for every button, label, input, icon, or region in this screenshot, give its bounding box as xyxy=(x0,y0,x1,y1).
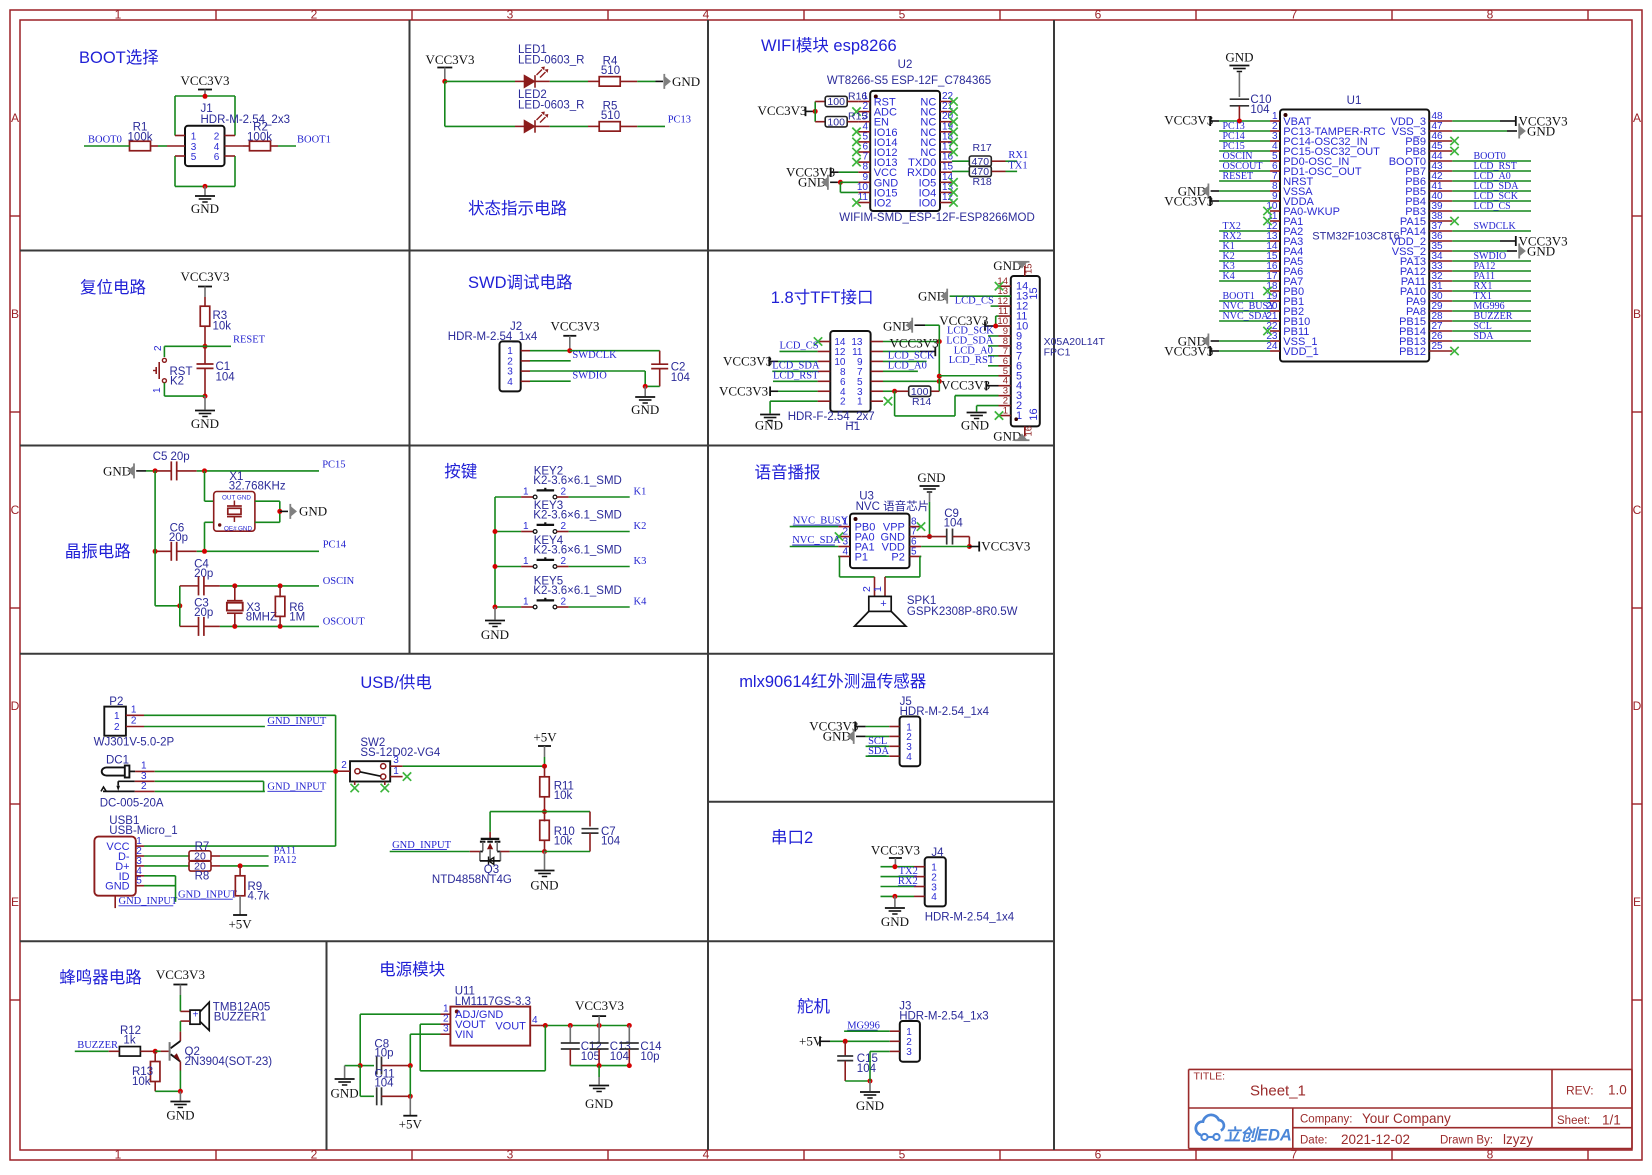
wire VCC3V3 down to LED2 row xyxy=(444,81,446,126)
junction dot PC14/X1 xyxy=(202,549,207,554)
resistor R15 100 xyxy=(825,117,847,127)
no-connect X U2 pin19 xyxy=(949,128,957,136)
svg-text:LCD_RST: LCD_RST xyxy=(949,355,995,366)
wire X1 OUT to PC15 net xyxy=(204,471,206,501)
svg-text:GND: GND xyxy=(481,627,509,642)
svg-text:4: 4 xyxy=(507,377,513,388)
pin 14 U2 IO5 xyxy=(940,181,952,183)
svg-text:VCC3V3: VCC3V3 xyxy=(180,73,229,88)
pin 28 U1 PB15 xyxy=(1429,320,1452,322)
no-connect X U2 pin6 xyxy=(852,148,860,156)
no-connect X U2 pin17 xyxy=(949,148,957,156)
svg-text:P2: P2 xyxy=(891,551,904,563)
svg-text:2021-12-02: 2021-12-02 xyxy=(1341,1132,1410,1147)
pin 29 U1 PA8 xyxy=(1429,310,1452,312)
wire U11 ADJ to gnd rail xyxy=(360,1013,440,1015)
no-connect X FPC pin1 xyxy=(995,411,1003,419)
wire FPC pin5 to gnd net xyxy=(939,375,998,377)
no-connect X SW2 unused contacts xyxy=(354,782,356,786)
svg-text:GSPK2308P-8R0.5W: GSPK2308P-8R0.5W xyxy=(907,606,1018,618)
svg-text:2: 2 xyxy=(141,781,147,792)
svg-text:HDR-F-2.54_2x7: HDR-F-2.54_2x7 xyxy=(788,411,875,423)
svg-text:R14: R14 xyxy=(912,396,931,408)
junction dot R8/R9 xyxy=(238,863,243,868)
svg-text:10k: 10k xyxy=(554,790,573,802)
power +5V (R9) xyxy=(233,914,247,916)
junction dot R12/R13/base xyxy=(153,1049,158,1054)
ground GND (H1 pin2) xyxy=(769,413,771,414)
ground flag GND (LED1) xyxy=(663,74,665,89)
wire U1 pin33 PA12 xyxy=(1452,270,1531,272)
junction dot R6 top xyxy=(278,583,283,588)
pin 30 U1 PA9 xyxy=(1429,300,1452,302)
wire U1 pin34 SWDIO xyxy=(1452,260,1531,262)
wire J4.3 RX2 xyxy=(881,886,915,888)
svg-text:GND: GND xyxy=(961,418,989,433)
svg-text:3: 3 xyxy=(906,1047,912,1058)
svg-text:GND: GND xyxy=(993,429,1021,444)
svg-text:104: 104 xyxy=(216,372,236,384)
title block xyxy=(1189,1068,1632,1070)
pin 38 U1 PA15 xyxy=(1429,220,1452,222)
svg-text:VCC3V3: VCC3V3 xyxy=(1164,113,1213,128)
svg-text:104: 104 xyxy=(857,1063,877,1075)
junction dot C13 bottom xyxy=(597,1063,602,1068)
wire LED2 to R5 xyxy=(550,125,588,127)
shield pin USB1 xyxy=(114,896,116,908)
svg-text:BUZZER1: BUZZER1 xyxy=(214,1012,266,1024)
capacitor C15 104 xyxy=(844,1041,846,1056)
wire U3 P1 to speaker pin2 xyxy=(838,555,839,557)
wire U1 pin2 PC13 xyxy=(1219,130,1270,132)
pin 2 U1 PC13-TAMPER-RTC xyxy=(1270,130,1280,132)
junction dot VCC3V3-J1 xyxy=(203,94,208,99)
wire +5V rail vertical xyxy=(409,1066,411,1097)
pushbutton K2 RST xyxy=(164,345,205,347)
ground flag GND (U1 pin47) xyxy=(1452,130,1507,132)
svg-text:VCC3V3: VCC3V3 xyxy=(156,967,205,982)
svg-text:GND: GND xyxy=(1527,123,1555,138)
svg-text:复位电路: 复位电路 xyxy=(80,278,147,297)
no-connect X U2 pin12 xyxy=(949,198,957,206)
connector FPC1 X05A20L14T xyxy=(1011,276,1040,426)
svg-text:VCC3V3: VCC3V3 xyxy=(425,52,474,67)
no-connect X U1 pin38 xyxy=(1450,217,1458,225)
svg-text:5: 5 xyxy=(911,546,917,557)
svg-text:Sheet_1: Sheet_1 xyxy=(1250,1083,1306,1100)
pin 18 U1 PB0 xyxy=(1270,290,1280,292)
wire J2 pin4 SWDIO xyxy=(530,380,571,382)
connector H1 HDR-F-2.54_2x7 xyxy=(830,331,870,412)
svg-text:D: D xyxy=(1633,699,1642,713)
wire USB D- to R7 xyxy=(144,855,190,857)
wire U1 pin5 OSCIN xyxy=(1219,160,1270,162)
svg-text:1.8寸TFT接口: 1.8寸TFT接口 xyxy=(771,288,874,307)
ground GND (J1 bottom) xyxy=(204,186,206,195)
section divider lines xyxy=(20,250,1054,252)
svg-text:GND: GND xyxy=(881,914,909,929)
no-connect X U2 pin14 xyxy=(949,178,957,186)
svg-text:3: 3 xyxy=(507,7,514,21)
pin 40 U1 PB4 xyxy=(1429,200,1452,202)
svg-text:GND: GND xyxy=(238,526,252,533)
pin 15 U1 PA5 xyxy=(1270,260,1280,262)
capacitor C13 104 xyxy=(598,1026,600,1044)
svg-text:K2: K2 xyxy=(170,376,184,388)
svg-text:1: 1 xyxy=(114,711,120,722)
svg-text:C5: C5 xyxy=(153,451,168,463)
wire OSCIN row xyxy=(220,585,319,587)
wire SW2.3 to +5V xyxy=(403,765,545,767)
ground GND (buzzer) xyxy=(179,1091,181,1100)
svg-text:5: 5 xyxy=(899,7,906,21)
svg-text:NVC_SDA: NVC_SDA xyxy=(1223,311,1270,322)
svg-text:C: C xyxy=(11,503,20,517)
svg-text:SWD调试电路: SWD调试电路 xyxy=(468,273,573,292)
svg-text:SWDCLK: SWDCLK xyxy=(572,350,617,361)
svg-text:RESET: RESET xyxy=(1223,171,1254,182)
svg-text:舵机: 舵机 xyxy=(797,997,831,1016)
junction dot C12 top xyxy=(568,1023,573,1028)
wire BOOT0 to R1 xyxy=(84,145,130,147)
svg-text:20p: 20p xyxy=(171,451,190,463)
svg-text:Your Company: Your Company xyxy=(1362,1111,1451,1126)
pin1 indicator dot FPC1 xyxy=(1014,417,1018,421)
wire LED1 to R4 xyxy=(550,80,588,82)
svg-text:2: 2 xyxy=(153,345,164,351)
junction dot J4 VCC xyxy=(892,864,897,869)
wire C6 to PC14 xyxy=(197,550,319,552)
wire pullup vertical xyxy=(814,102,816,122)
no-connect X U2 pin13 xyxy=(949,188,957,196)
svg-text:5: 5 xyxy=(136,876,142,887)
ground GND (keys) xyxy=(494,607,496,620)
no-connect X H1 pin14 xyxy=(814,337,822,345)
wire U1 pin44 BOOT0 xyxy=(1452,160,1531,162)
svg-text:E: E xyxy=(1633,895,1641,909)
junction dot DC/+5V rail xyxy=(333,769,338,774)
wire J5.4 SDA xyxy=(866,755,890,757)
svg-text:E: E xyxy=(11,895,19,909)
svg-text:6: 6 xyxy=(214,152,220,163)
wire R14 bottom loop to FPC pin3 xyxy=(894,391,896,416)
speaker SPK1 GSPK2308P-8R0.5W xyxy=(874,577,876,597)
junction dot VBAT/C10 xyxy=(1237,119,1242,124)
wire USB D+ to R8 xyxy=(144,865,190,867)
no-connect X U2 pin21 xyxy=(949,107,957,115)
wire H1 pin5 to gnd net vertical xyxy=(883,380,939,382)
junction dot LED supply xyxy=(442,79,447,84)
svg-text:GND: GND xyxy=(331,1086,359,1101)
wire J4.4 GND xyxy=(881,895,915,897)
junction dot J3 +5V/C15 xyxy=(843,1039,848,1044)
pin 15 U2 RXD0 xyxy=(940,171,952,173)
svg-text:104: 104 xyxy=(610,1051,630,1063)
wire buzzer to Q2 collector xyxy=(179,1021,181,1032)
power flag VCC3V3 (U1 pin36) xyxy=(1452,240,1500,242)
svg-text:IO2: IO2 xyxy=(874,198,892,210)
svg-text:状态指示电路: 状态指示电路 xyxy=(468,199,568,218)
wire U1 pin40 LCD_SCK xyxy=(1452,200,1531,202)
junction dot C8 left xyxy=(358,1063,363,1068)
svg-text:VCC3V3: VCC3V3 xyxy=(575,998,624,1013)
svg-text:1: 1 xyxy=(393,766,399,777)
svg-text:LED-0603_R: LED-0603_R xyxy=(518,55,584,67)
svg-text:TITLE:: TITLE: xyxy=(1194,1071,1226,1083)
wire DC1 pin3/pin2 GND_INPUT loop xyxy=(155,780,264,782)
wire R13 bottom to emitter xyxy=(155,1090,180,1092)
junction dot +5V/R11 xyxy=(542,764,547,769)
wire DC1.1 to SW2 xyxy=(155,770,336,772)
junction dot H1.5 net xyxy=(937,379,942,384)
svg-text:K4: K4 xyxy=(1223,271,1235,282)
svg-text:SS-12D02-VG4: SS-12D02-VG4 xyxy=(360,747,441,759)
wire U3 P2 to speaker pin1 xyxy=(920,555,921,557)
svg-text:10k: 10k xyxy=(132,1076,151,1088)
wire R4 to GND flag xyxy=(637,80,655,82)
wire J2 pin1 to VCC3V3 xyxy=(530,350,570,352)
pin 4 U2 IO16 xyxy=(858,131,870,133)
svg-text:GND: GND xyxy=(631,402,659,417)
wire R11 bottom to Q3 drain xyxy=(490,811,544,813)
svg-text:IO0: IO0 xyxy=(919,198,937,210)
no-connect X U1 pin18 xyxy=(1263,287,1271,295)
ground flag GND (U1 pin35) xyxy=(1452,250,1507,252)
svg-text:2: 2 xyxy=(341,760,347,771)
svg-text:GND: GND xyxy=(917,470,945,485)
wire H1 pin12 LCD_CS xyxy=(780,350,818,352)
pin 10 U1 PA0-WKUP xyxy=(1270,210,1280,212)
pin 20 U1 PB2 xyxy=(1270,310,1280,312)
svg-text:1: 1 xyxy=(523,521,529,532)
wire U1 pin4 PC15 xyxy=(1219,150,1270,152)
svg-text:LCD_CS: LCD_CS xyxy=(780,341,819,352)
junction dot gnd rail to 8M caps xyxy=(177,603,182,608)
wire J3.1 MG996 xyxy=(844,1030,890,1032)
pin 22 U1 PB11 xyxy=(1270,330,1280,332)
wire key common vertical xyxy=(494,497,496,607)
capacitor C14 10p xyxy=(628,1026,630,1044)
junction dot C11 right xyxy=(408,1094,413,1099)
svg-text:VIN: VIN xyxy=(455,1029,473,1041)
junction dot C1 bottom xyxy=(203,394,208,399)
svg-text:lzyzy: lzyzy xyxy=(1503,1132,1533,1147)
wire U1 pin21 NVC_SDA xyxy=(1219,320,1270,322)
svg-text:4.7k: 4.7k xyxy=(248,891,270,903)
wire U1 pin13 RX2 xyxy=(1219,240,1270,242)
pin 6 U1 PD1-OSC_OUT xyxy=(1270,170,1280,172)
junction dot C14 top xyxy=(627,1023,632,1028)
wire U1 pin32 PA11 xyxy=(1452,280,1531,282)
junction dot emitter/GND xyxy=(178,1089,183,1094)
wire J2 pin1 to C2 top xyxy=(570,350,660,352)
svg-text:P1: P1 xyxy=(855,551,868,563)
no-connect X SW2 pin1 xyxy=(403,772,411,780)
no-connect X U2 pin11 IO2 xyxy=(852,198,860,206)
pin 16 U1 PA6 xyxy=(1270,270,1280,272)
pin 26 U1 PB13 xyxy=(1429,340,1452,342)
svg-text:PA12: PA12 xyxy=(274,855,297,866)
svg-text:VCC3V3: VCC3V3 xyxy=(180,269,229,284)
pin 11 U1 PA1 xyxy=(1270,220,1280,222)
no-connect X U1 pin11 xyxy=(1263,217,1271,225)
svg-text:BOOT选择: BOOT选择 xyxy=(79,48,159,67)
wire KEY2 to K1 xyxy=(569,496,630,498)
pin 8 U2 VCC xyxy=(858,171,870,173)
wire U11 out to VCC3V3 rail xyxy=(540,1025,545,1027)
no-connect X U2 pin5 xyxy=(852,138,860,146)
svg-text:2: 2 xyxy=(840,397,846,408)
wire R2 to BOOT1 xyxy=(243,145,250,147)
svg-text:USB-Micro_1: USB-Micro_1 xyxy=(109,825,177,837)
svg-text:VCC3V3: VCC3V3 xyxy=(941,378,990,393)
capacitor C12 105 xyxy=(569,1026,571,1044)
no-connect X U1 pin45 xyxy=(1450,147,1458,155)
svg-text:LED-0603_R: LED-0603_R xyxy=(518,100,584,112)
svg-text:4: 4 xyxy=(532,1015,538,1026)
wire U1 pin17 K4 xyxy=(1219,280,1270,282)
wire U1 pin28 BUZZER xyxy=(1452,320,1531,322)
wire U11 VOUT feedback xyxy=(420,1023,440,1025)
svg-text:8MHZ: 8MHZ xyxy=(246,612,277,624)
junction dot PC15/X1 xyxy=(202,468,207,473)
svg-text:BOOT1: BOOT1 xyxy=(297,134,331,145)
wire J3.3 down to GND xyxy=(870,1050,890,1052)
junction dot J3 GND xyxy=(868,1079,873,1084)
svg-text:104: 104 xyxy=(1250,104,1270,116)
wire U1 pin6 OSCOUT xyxy=(1219,170,1270,172)
svg-text:K2-3.6×6.1_SMD: K2-3.6×6.1_SMD xyxy=(533,585,622,597)
svg-text:WJ301V-5.0-2P: WJ301V-5.0-2P xyxy=(94,737,175,749)
svg-text:2: 2 xyxy=(311,1148,318,1162)
svg-text:B: B xyxy=(1633,307,1641,321)
svg-text:电源模块: 电源模块 xyxy=(379,960,445,979)
pin 1 U2 RST xyxy=(858,101,870,103)
pin 22 U2 NC xyxy=(940,101,952,103)
svg-text:VCC3V3: VCC3V3 xyxy=(550,319,599,334)
wire VCC3V3 to J1 wrap xyxy=(175,95,235,97)
wire USB VCC to +5V rail xyxy=(144,845,336,847)
svg-text:105: 105 xyxy=(581,1051,600,1063)
junction dot C6 left xyxy=(153,549,158,554)
svg-text:K3: K3 xyxy=(634,556,647,567)
capacitor C1 104 xyxy=(204,346,206,364)
transistor Q3 NTD4858NT4G xyxy=(489,832,491,838)
ground GND (J3) xyxy=(869,1081,871,1091)
junction dot U2 GND xyxy=(838,180,843,185)
svg-text:100: 100 xyxy=(827,116,845,128)
svg-text:2: 2 xyxy=(561,597,567,608)
wire OSCOUT row xyxy=(220,625,319,627)
junction dot key row 4 xyxy=(493,605,498,610)
svg-text:Date:: Date: xyxy=(1300,1135,1328,1147)
svg-text:VDD_1: VDD_1 xyxy=(1283,346,1318,358)
pin 3 U1 PC14-OSC32_IN xyxy=(1270,140,1280,142)
svg-text:REV:: REV: xyxy=(1566,1084,1594,1098)
pin 13 U1 PA3 xyxy=(1270,240,1280,242)
svg-text:104: 104 xyxy=(944,518,964,530)
wire KEY5 to K4 xyxy=(569,606,630,608)
svg-text:1.0: 1.0 xyxy=(1608,1083,1627,1098)
junction dot C14 bottom xyxy=(627,1063,632,1068)
svg-text:K2-3.6×6.1_SMD: K2-3.6×6.1_SMD xyxy=(533,475,622,487)
no-connect X U2 pin20 xyxy=(949,118,957,126)
svg-text:5: 5 xyxy=(191,152,197,163)
svg-text:LCD_CS: LCD_CS xyxy=(1474,201,1511,212)
pin 13 U2 IO4 xyxy=(940,191,952,193)
pin 11 U2 IO2 xyxy=(858,202,870,204)
no-connect X U2 pin7 xyxy=(852,158,860,166)
svg-text:1k: 1k xyxy=(123,1035,135,1047)
pin 3 U2 EN xyxy=(858,121,870,123)
svg-text:2: 2 xyxy=(561,556,567,567)
no-connect X H1 pin1 xyxy=(884,397,892,405)
wire U1 pin12 TX2 xyxy=(1219,230,1270,232)
svg-text:VCC3V3: VCC3V3 xyxy=(890,336,939,351)
junction dot X1 gnd xyxy=(277,509,282,514)
pin 32 U1 PA11 xyxy=(1429,280,1452,282)
wire U1 pin41 LCD_SDA xyxy=(1452,190,1531,192)
wire U1 pin42 LCD_A0 xyxy=(1452,180,1531,182)
svg-text:TX1: TX1 xyxy=(1008,160,1027,171)
wire H1 pin2 to GND xyxy=(770,400,818,402)
svg-text:11: 11 xyxy=(858,192,869,203)
wire J1 bottom wrap to GND xyxy=(174,156,176,186)
svg-text:RESET: RESET xyxy=(233,335,266,346)
pin 7 U2 IO13 xyxy=(858,161,870,163)
svg-text:GND: GND xyxy=(823,729,851,744)
wire USB ID/GND tie xyxy=(144,875,176,877)
svg-text:3: 3 xyxy=(507,1148,514,1162)
pin 1 U1 VBAT xyxy=(1270,120,1280,122)
power +5V (U11 in) xyxy=(403,1115,417,1117)
pin 5 U2 IO14 xyxy=(858,141,870,143)
junction dot C8 right/+5V rail xyxy=(408,1063,413,1068)
wire X1 right pins to GND xyxy=(255,500,280,502)
svg-text:K1: K1 xyxy=(634,486,647,497)
svg-text:1: 1 xyxy=(1003,406,1008,417)
pin 33 U1 PA12 xyxy=(1429,270,1452,272)
wire U1 pin37 SWDCLK xyxy=(1452,230,1531,232)
wire NVC_BUSY to U3 pin1 xyxy=(790,526,839,528)
junction dot R6 bottom xyxy=(278,624,283,629)
svg-text:GND: GND xyxy=(856,1098,884,1113)
svg-text:R18: R18 xyxy=(973,176,992,188)
wire FPC pin2 to GND xyxy=(977,405,999,407)
svg-text:mlx90614红外测温传感器: mlx90614红外测温传感器 xyxy=(739,672,927,691)
svg-text:GND: GND xyxy=(755,418,783,433)
pin 21 U1 PB10 xyxy=(1270,320,1280,322)
svg-text:BUZZER: BUZZER xyxy=(77,1040,118,1051)
wire GND_INPUT to Q3 gate xyxy=(390,851,470,853)
pin 45 U1 PB8 xyxy=(1429,150,1452,152)
wire C2 bottom to GND xyxy=(645,385,660,387)
svg-text:1: 1 xyxy=(115,7,122,21)
wire KEY3 to K2 xyxy=(569,531,630,533)
pin 37 U1 PA14 xyxy=(1429,230,1452,232)
svg-text:15: 15 xyxy=(1028,287,1040,299)
wire VBAT xyxy=(1219,120,1270,122)
svg-text:1: 1 xyxy=(857,397,863,408)
svg-text:VCC3V3: VCC3V3 xyxy=(757,103,806,118)
svg-text:GND: GND xyxy=(105,881,130,893)
svg-text:1: 1 xyxy=(523,487,529,498)
svg-text:OUT GND: OUT GND xyxy=(222,495,251,502)
wire U1 pin29 MG996 xyxy=(1452,310,1531,312)
svg-text:LCD_A0: LCD_A0 xyxy=(888,361,927,372)
svg-text:C: C xyxy=(1633,503,1642,517)
transistor Q2 2N3904(SOT-23) xyxy=(179,1032,181,1041)
